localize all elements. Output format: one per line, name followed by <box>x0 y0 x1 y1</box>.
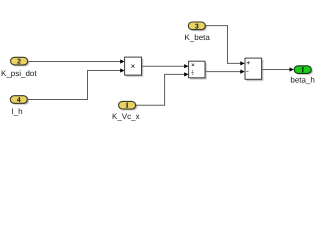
label beta_h <box>290 76 314 85</box>
svg-text:4: 4 <box>17 97 21 104</box>
label I_h <box>12 107 23 116</box>
wire from Inport 4 (I_h) to Product input 2 <box>28 68 125 99</box>
sum block (+ -) <box>245 58 263 81</box>
wire from Divide output to Sum - input <box>205 70 245 74</box>
svg-text:K_Vc_x: K_Vc_x <box>112 112 140 121</box>
label K_psi_dot <box>1 69 37 78</box>
inport 3 (K_beta) <box>188 22 206 31</box>
svg-text:I_h: I_h <box>12 107 23 116</box>
label K_beta <box>185 33 211 42</box>
svg-text:K_psi_dot: K_psi_dot <box>1 69 37 78</box>
wire from Inport 3 (K_beta) to Sum + input <box>206 26 245 66</box>
product block (x) <box>125 57 143 77</box>
svg-text:2: 2 <box>17 59 21 66</box>
inport 1 (K_Vc_x) <box>119 101 137 110</box>
inport 2 (K_psi_dot) <box>11 57 29 66</box>
svg-text:beta_h: beta_h <box>290 76 314 85</box>
svg-text:3: 3 <box>195 23 199 30</box>
svg-text:K_beta: K_beta <box>185 33 211 42</box>
label K_Vc_x <box>112 112 140 121</box>
wire from Product output to Divide input 1 <box>142 64 189 68</box>
inport 4 (I_h) <box>10 96 28 105</box>
wire from Inport 2 to Product input 1 <box>29 59 125 63</box>
outport 1 (beta_h) <box>294 66 312 75</box>
wire from Sum output to Outport beta_h <box>262 67 294 71</box>
divide block (x over /) <box>189 61 207 79</box>
wire from Inport 1 (K_Vc_x) to Divide input 2 <box>136 72 189 105</box>
